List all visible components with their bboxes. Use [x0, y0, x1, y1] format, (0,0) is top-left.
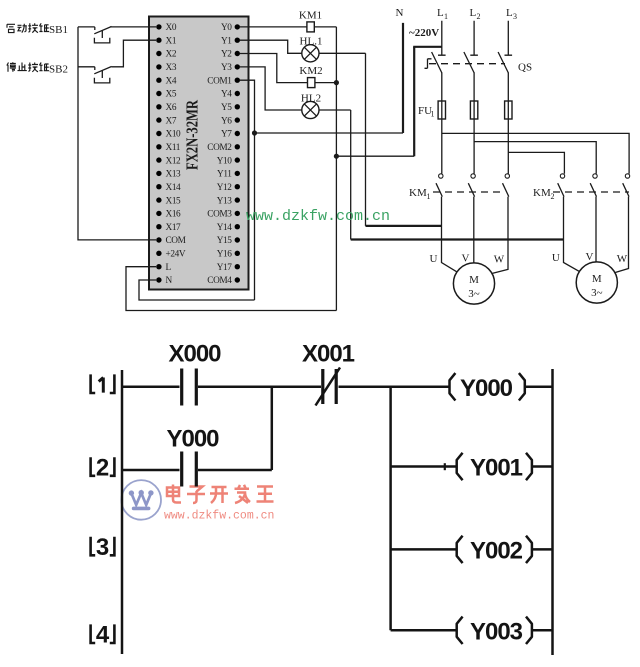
svg-text:Y003: Y003	[470, 618, 523, 645]
svg-text:HL.1: HL.1	[300, 36, 323, 48]
svg-text:X10: X10	[166, 130, 182, 140]
svg-text:Y000: Y000	[460, 375, 513, 402]
svg-text:X001: X001	[302, 341, 355, 368]
svg-text:Y17: Y17	[217, 263, 233, 273]
svg-text:N: N	[396, 7, 404, 19]
svg-text:KM: KM	[409, 187, 427, 199]
svg-text:SB1: SB1	[49, 24, 68, 36]
svg-text:2: 2	[96, 454, 109, 481]
svg-text:X12: X12	[166, 156, 182, 166]
svg-text:X17: X17	[166, 223, 182, 233]
svg-text:COM1: COM1	[207, 76, 232, 86]
svg-text:L: L	[506, 7, 513, 19]
svg-text:Y11: Y11	[217, 170, 232, 180]
svg-text:3: 3	[96, 534, 109, 561]
svg-text:X11: X11	[166, 143, 181, 153]
svg-text:L: L	[166, 263, 172, 273]
svg-text:~220V: ~220V	[409, 27, 439, 39]
svg-text:2: 2	[551, 192, 555, 201]
svg-text:KM: KM	[533, 187, 551, 199]
svg-text:X5: X5	[166, 90, 177, 100]
svg-text:X14: X14	[166, 183, 182, 193]
svg-text:QS: QS	[518, 62, 532, 74]
svg-text:3~: 3~	[468, 288, 480, 300]
svg-text:V: V	[586, 251, 594, 263]
svg-text:SB2: SB2	[49, 63, 68, 75]
svg-text:3: 3	[513, 12, 517, 21]
svg-text:Y001: Y001	[470, 455, 523, 482]
svg-text:Y15: Y15	[217, 236, 233, 246]
svg-text:Y16: Y16	[217, 250, 233, 260]
svg-text:Y2: Y2	[221, 50, 232, 60]
svg-text:X0: X0	[166, 23, 177, 33]
svg-text:FX2N-32MR: FX2N-32MR	[183, 99, 202, 170]
svg-text:1: 1	[431, 110, 435, 119]
svg-text:Y7: Y7	[221, 130, 232, 140]
svg-text:X1: X1	[166, 36, 177, 46]
svg-text:U: U	[552, 252, 560, 264]
svg-text:X15: X15	[166, 196, 182, 206]
svg-text:V: V	[462, 253, 470, 265]
svg-text:Y0: Y0	[221, 23, 232, 33]
svg-text:1: 1	[444, 12, 448, 21]
svg-text:Y14: Y14	[217, 223, 233, 233]
svg-text:1: 1	[427, 192, 431, 201]
svg-text:COM2: COM2	[207, 143, 232, 153]
svg-text:Y10: Y10	[217, 156, 233, 166]
svg-text:Y4: Y4	[221, 90, 232, 100]
svg-text:www.dzkfw.com.cn: www.dzkfw.com.cn	[246, 208, 390, 225]
svg-text:COM: COM	[166, 236, 186, 246]
svg-text:X13: X13	[166, 170, 182, 180]
svg-text:4: 4	[96, 622, 110, 649]
svg-text:KM1: KM1	[299, 10, 322, 22]
svg-text:2: 2	[477, 12, 481, 21]
svg-text:Y6: Y6	[221, 116, 232, 126]
svg-text:KM2: KM2	[299, 65, 322, 77]
svg-text:Y12: Y12	[217, 183, 233, 193]
svg-text:M: M	[592, 273, 602, 285]
svg-text:+24V: +24V	[166, 250, 186, 260]
svg-text:X6: X6	[166, 103, 177, 113]
svg-text:Y3: Y3	[221, 63, 232, 73]
svg-text:N: N	[166, 276, 173, 286]
svg-text:L: L	[470, 7, 477, 19]
svg-text:W: W	[494, 254, 505, 266]
svg-text:www.dzkfw.com.cn: www.dzkfw.com.cn	[164, 510, 274, 523]
svg-text:COM4: COM4	[207, 276, 232, 286]
svg-text:Y13: Y13	[217, 196, 233, 206]
svg-text:Y002: Y002	[470, 537, 523, 564]
svg-text:X3: X3	[166, 63, 177, 73]
svg-text:X7: X7	[166, 116, 177, 126]
svg-text:Y5: Y5	[221, 103, 232, 113]
svg-text:HL2: HL2	[301, 93, 321, 105]
svg-text:Y1: Y1	[221, 36, 232, 46]
svg-text:Y000: Y000	[166, 425, 219, 452]
svg-text:X16: X16	[166, 210, 182, 220]
svg-text:X2: X2	[166, 50, 177, 60]
svg-text:X4: X4	[166, 76, 177, 86]
svg-text:L: L	[437, 7, 444, 19]
svg-text:COM3: COM3	[207, 210, 232, 220]
svg-text:X000: X000	[168, 341, 221, 368]
svg-text:W: W	[617, 253, 628, 265]
svg-text:U: U	[430, 253, 438, 265]
svg-text:3~: 3~	[591, 287, 603, 299]
svg-text:M: M	[469, 274, 479, 286]
